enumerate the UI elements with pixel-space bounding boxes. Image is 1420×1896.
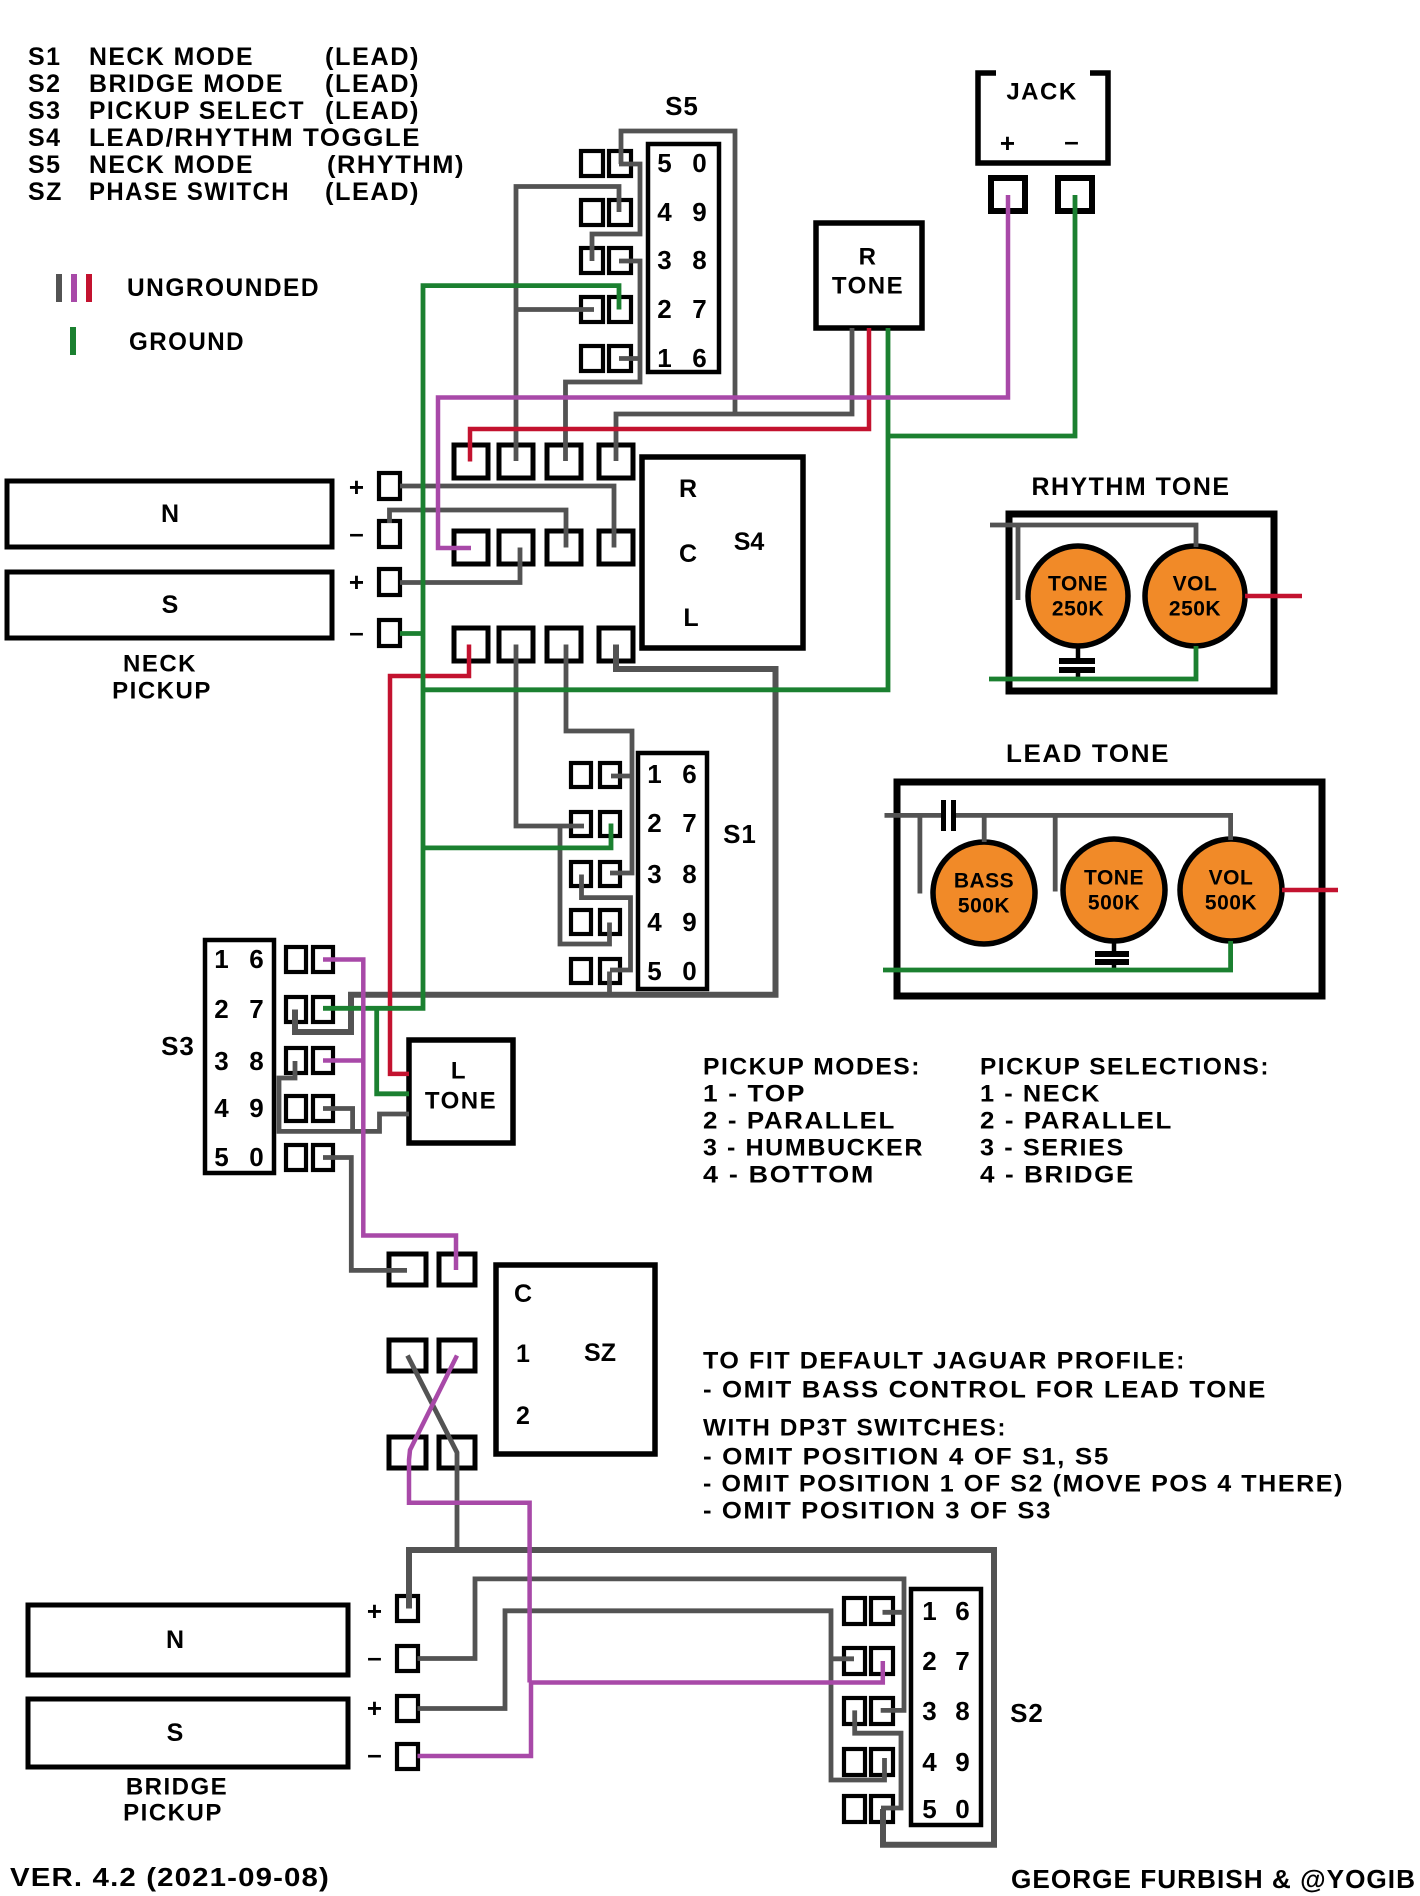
svg-text:3: 3 [647,859,662,889]
svg-text:3 - HUMBUCKER: 3 - HUMBUCKER [703,1135,924,1162]
svg-text:C: C [514,1280,532,1308]
svg-text:9: 9 [682,907,697,937]
wire gray S5 row5-right branch [619,356,640,361]
svg-text:NECK: NECK [123,651,197,678]
svg-text:SZ: SZ [28,178,63,206]
svg-text:R: R [679,475,697,503]
potentiometer TONE 250K [1028,546,1128,646]
svg-text:7: 7 [955,1646,970,1676]
svg-text:8: 8 [249,1046,264,1076]
svg-text:RHYTHM TONE: RHYTHM TONE [1032,473,1231,501]
svg-text:- OMIT POSITION 4 OF S1, S5: - OMIT POSITION 4 OF S1, S5 [703,1444,1110,1471]
legend ungrounded swatch purple bar [71,274,77,302]
svg-text:S5: S5 [28,151,62,179]
svg-text:2: 2 [516,1402,530,1430]
svg-text:3 - SERIES: 3 - SERIES [980,1135,1125,1162]
switch S3 pads row1 [286,947,333,972]
wire gray S3 row5-right to SZ top-left pad [323,1158,407,1271]
svg-text:PHASE SWITCH: PHASE SWITCH [89,178,290,206]
svg-text:1 - NECK: 1 - NECK [980,1081,1101,1108]
svg-text:–: – [349,518,364,548]
svg-text:5: 5 [214,1142,229,1172]
neck terminal N- [349,518,400,548]
svg-text:8: 8 [682,859,697,889]
wire gray S2 row3-left to S2 row5-right [855,1710,901,1808]
svg-text:S3: S3 [28,97,62,125]
svg-text:L: L [683,604,698,632]
switch S5 pads row1 [581,151,631,176]
wire red rhythm-tone output [1245,594,1302,599]
svg-text:(LEAD): (LEAD) [325,43,420,71]
wire gray lead-tone bass tap [918,815,923,893]
svg-text:2: 2 [214,994,229,1024]
svg-text:3: 3 [657,245,672,275]
wire gray S4 bottom pad4 to S3 row2-left [295,645,776,1033]
svg-text:3: 3 [922,1696,937,1726]
svg-text:GROUND: GROUND [129,328,245,356]
wire gray bridge N- to S2 row3-right [418,1579,905,1711]
switch S5 pads row2 [581,200,631,225]
bridge terminal S+ [367,1693,418,1723]
svg-text:5: 5 [657,148,672,178]
jack J1 body [978,73,1108,163]
legend row S5 [28,151,465,179]
wire gray S4 bottom pad2 to S1 row2-left [516,645,584,827]
note pickup modes [703,1054,924,1189]
wire gray branch to S2 row1-right [883,1610,905,1615]
svg-text:2: 2 [657,294,672,324]
svg-text:2: 2 [922,1646,937,1676]
wire gray lead-tone bass top [982,815,987,842]
control R TONE (rhythm tone pot) [816,223,922,328]
switch S3 pads row3 [286,1048,333,1073]
svg-text:+: + [1000,128,1016,158]
wire gray branch to S1 row4-right [560,826,610,944]
switch S1 pads row3 [571,862,620,886]
svg-text:S4: S4 [28,124,62,152]
bridge pickup coil S [28,1699,348,1767]
wire gray neck N+ to S4 middle pad4 [400,486,614,548]
svg-text:S2: S2 [1010,1698,1044,1728]
switch S1 pads row2 [571,812,620,836]
svg-text:3: 3 [214,1046,229,1076]
svg-text:S1: S1 [28,43,62,71]
legend ground swatch green bar [70,327,76,355]
svg-text:+: + [349,567,365,597]
svg-text:5: 5 [922,1794,937,1824]
svg-text:9: 9 [955,1747,970,1777]
svg-text:4: 4 [657,197,672,227]
wire green branch to L TONE [377,1008,409,1094]
svg-text:1 - TOP: 1 - TOP [703,1081,806,1108]
note pickup selections [980,1054,1270,1189]
potentiometer TONE 500K [1063,839,1165,941]
wire green lead-tone inset ground [883,941,1231,970]
svg-text:PICKUP: PICKUP [123,1800,223,1827]
jack terminal + [991,178,1025,211]
switch S2 pads row3 [844,1698,893,1724]
svg-text:1: 1 [516,1340,530,1368]
svg-text:BRIDGE MODE: BRIDGE MODE [89,70,284,98]
svg-text:2: 2 [647,808,662,838]
legend row SZ [28,178,420,206]
capacitor C-lead-tone (tone cap to ground) [1095,941,1129,972]
svg-text:C: C [679,540,697,568]
wire gray neck N- to S4 middle pad3 [390,510,567,548]
wire purple SZ crossover diagonal to bridge net [409,1356,530,1683]
svg-text:PICKUP MODES:: PICKUP MODES: [703,1054,921,1081]
svg-text:PICKUP SELECT: PICKUP SELECT [89,97,305,125]
wire gray SZ crossover diagonal [408,1356,458,1551]
switch S5 body [648,144,719,373]
wire gray S3 row3-left to L TONE [279,1061,409,1131]
bridge terminal N- [367,1642,418,1672]
wire gray branch to S1 row1-right [611,774,632,779]
svg-text:1: 1 [214,944,229,974]
svg-text:7: 7 [249,994,264,1024]
svg-text:UNGROUNDED: UNGROUNDED [127,274,320,302]
svg-text:5: 5 [647,956,662,986]
svg-text:(LEAD): (LEAD) [325,70,420,98]
wire gray S4 bottom pad3 to S1 row3-right [566,645,632,874]
neck terminal N+ [349,472,400,502]
wire gray S3 row4-right branch [323,1109,353,1132]
switch S1 pads row1 [571,763,620,787]
svg-text:4: 4 [214,1093,229,1123]
svg-text:VOL: VOL [1173,573,1218,596]
inset RHYTHM TONE box [1009,514,1274,691]
svg-text:TONE: TONE [1048,573,1108,596]
svg-text:0: 0 [682,956,697,986]
svg-text:VOL: VOL [1209,867,1254,890]
svg-text:(LEAD): (LEAD) [325,97,420,125]
control L TONE (lead tone pot) [409,1040,513,1143]
svg-text:8: 8 [692,245,707,275]
svg-text:GEORGE FURBISH & @YOGIB: GEORGE FURBISH & @YOGIB [1011,1864,1416,1894]
wire gray bridge N+ frame to S2 row5-right [409,1550,994,1845]
wire gray neck S+ to S4 middle pad2 [400,548,520,583]
potentiometer BASS 500K [933,842,1035,944]
svg-text:4: 4 [647,907,662,937]
svg-text:PICKUP: PICKUP [112,678,212,705]
svg-text:WITH DP3T SWITCHES:: WITH DP3T SWITCHES: [703,1415,1007,1442]
svg-text:BRIDGE: BRIDGE [126,1774,228,1801]
svg-text:+: + [349,472,365,502]
inset LEAD TONE box [897,782,1322,996]
svg-text:9: 9 [249,1093,264,1123]
wire green neck S- stub [400,631,423,636]
svg-text:S2: S2 [28,70,62,98]
switch S5 pads row3 [581,248,631,273]
svg-text:TONE: TONE [1084,867,1144,890]
svg-text:L: L [451,1058,467,1085]
svg-text:NECK MODE: NECK MODE [89,151,254,179]
switch S3 pads row5 [286,1145,333,1170]
svg-text:500K: 500K [1088,892,1140,915]
svg-text:- OMIT BASS CONTROL FOR LEAD T: - OMIT BASS CONTROL FOR LEAD TONE [703,1377,1267,1404]
neck pickup coil N [7,481,332,547]
legend ungrounded swatch gray bar [56,274,62,302]
svg-text:NECK MODE: NECK MODE [89,43,254,71]
svg-text:6: 6 [682,759,697,789]
svg-text:+: + [367,1596,383,1626]
wire green bus horizontal to R-TONE ground [423,328,888,690]
svg-text:0: 0 [249,1142,264,1172]
svg-text:- OMIT POSITION 1 OF S2 (MOVE: - OMIT POSITION 1 OF S2 (MOVE POS 4 THER… [703,1471,1344,1498]
svg-text:–: – [367,1739,382,1769]
svg-text:4 - BRIDGE: 4 - BRIDGE [980,1162,1135,1189]
svg-text:N: N [161,500,179,528]
bridge terminal S- [367,1739,418,1769]
svg-text:9: 9 [692,197,707,227]
wire gray branch to S2 row2-left [831,1656,854,1661]
wire gray lead-tone tone tap [1053,815,1058,891]
wire gray S5 row2-right to S4 top pad2 [516,187,619,462]
svg-text:LEAD/RHYTHM TOGGLE: LEAD/RHYTHM TOGGLE [89,124,421,152]
svg-text:1: 1 [647,759,662,789]
switch SZ pads row C [389,1254,475,1285]
svg-text:7: 7 [682,808,697,838]
svg-text:S: S [162,591,179,619]
switch SZ pads row 2 [389,1437,475,1468]
svg-text:TONE: TONE [425,1088,497,1115]
wire red S4 bottom pad1 to L TONE [390,645,469,1074]
legend row S1 [28,43,420,71]
svg-text:7: 7 [692,294,707,324]
svg-text:500K: 500K [958,895,1010,918]
switch S5 pads row5 [581,346,631,371]
bridge pickup coil N [28,1605,348,1675]
wire red R-TONE to S4 top pad1 [470,328,869,462]
svg-text:S3: S3 [161,1031,195,1061]
svg-text:JACK: JACK [1006,79,1077,106]
svg-text:LEAD TONE: LEAD TONE [1006,740,1170,768]
switch S4 pad row R (top) [454,445,633,478]
svg-text:–: – [1064,126,1079,156]
svg-text:S1: S1 [723,819,757,849]
svg-text:0: 0 [955,1794,970,1824]
wire gray bridge S+ to S2 row4-right [418,1611,885,1780]
switch S2 pads row1 [844,1598,893,1624]
svg-text:4: 4 [922,1747,937,1777]
neck terminal S+ [349,567,400,597]
svg-text:6: 6 [249,944,264,974]
potentiometer VOL 500K [1180,839,1282,941]
wire gray rhythm-tone inset tone tap [1016,525,1021,600]
wire green rhythm-tone inset ground [989,646,1196,679]
switch S4 pad row L (bottom) [454,628,633,661]
wire gray branch to S5 row4-left [516,307,594,312]
svg-text:1: 1 [922,1596,937,1626]
note dp3t switches [703,1415,1344,1525]
switch S4 pad row C (middle) [454,531,633,564]
svg-text:500K: 500K [1205,892,1257,915]
legend row S2 [28,70,420,98]
svg-text:250K: 250K [1052,598,1104,621]
capacitor C-rhythm (tone cap to ground) [1059,646,1095,681]
svg-text:+: + [367,1693,383,1723]
wire gray S5 row1-right to S5 row3-left [592,164,640,261]
svg-text:250K: 250K [1169,598,1221,621]
svg-text:6: 6 [692,343,707,373]
legend row S3 [28,97,420,125]
svg-text:S5: S5 [665,91,699,121]
wire gray lead-tone inset input to cap [885,813,942,818]
jack terminal - [1058,178,1092,211]
svg-text:2 - PARALLEL: 2 - PARALLEL [980,1108,1173,1135]
switch S3 body [205,940,274,1173]
svg-text:0: 0 [692,148,707,178]
wire green branch to S1 row2-right [423,824,611,848]
note jaguar profile [703,1348,1267,1404]
wire green ground bus S5 row4-right to S3 row2-right [323,286,619,1009]
switch SZ pads row 1 [389,1340,475,1371]
neck terminal S- [349,617,400,647]
svg-text:BASS: BASS [954,870,1014,893]
wire gray S1 row3-left to S1 row5-right [582,875,631,971]
bridge terminal N+ [367,1596,418,1626]
switch S1 pads row5 [571,959,620,983]
wire purple S3 row3-right branch [323,1058,363,1063]
svg-text:–: – [349,617,364,647]
svg-text:S4: S4 [734,528,765,556]
svg-text:N: N [166,1626,184,1654]
svg-text:8: 8 [955,1696,970,1726]
switch S3 pads row4 [286,1096,333,1121]
svg-text:2 - PARALLEL: 2 - PARALLEL [703,1108,896,1135]
capacitor C-lead-series (bass cap in series) [941,800,956,831]
wire gray branch to S5 row1 right pad [621,131,735,414]
neck pickup coil S [7,572,332,638]
switch S5 pads row4 [581,297,631,322]
svg-text:- OMIT POSITION 3 OF S3: - OMIT POSITION 3 OF S3 [703,1498,1052,1525]
switch S2 pads row5 [844,1796,893,1822]
wire green jack sleeve to ground [888,195,1075,436]
switch SZ body [496,1265,655,1454]
switch S2 pads row2 [844,1648,893,1674]
svg-text:TONE: TONE [832,273,904,300]
svg-text:6: 6 [955,1596,970,1626]
wire red lead-tone output [1282,888,1338,893]
switch S3 pads row2 [286,997,333,1022]
wire purple bridge S- to S2 row2-right [418,1661,883,1756]
switch S2 body [911,1589,981,1825]
svg-text:4 - BOTTOM: 4 - BOTTOM [703,1162,875,1189]
potentiometer VOL 250K [1145,546,1245,646]
svg-text:TO FIT DEFAULT JAGUAR PROFILE:: TO FIT DEFAULT JAGUAR PROFILE: [703,1348,1186,1375]
svg-text:VER. 4.2 (2021-09-08): VER. 4.2 (2021-09-08) [10,1862,330,1892]
wire gray lead-tone inset cap to vol [956,815,1231,840]
svg-text:(RHYTHM): (RHYTHM) [327,151,465,179]
svg-text:1: 1 [657,343,672,373]
svg-text:SZ: SZ [584,1339,616,1367]
svg-text:–: – [367,1642,382,1672]
svg-text:(LEAD): (LEAD) [325,178,420,206]
wire gray S5 row3-right to S4 top pad3 [566,261,641,461]
legend row S4 [28,124,421,152]
svg-text:R: R [859,244,878,271]
wire purple jack tip to S4 middle pad1 [438,195,1008,548]
switch S4 body [642,457,803,648]
wire gray rhythm-tone inset input [990,525,1196,547]
wire gray branch to S1 row5-right [607,972,612,995]
svg-text:PICKUP SELECTIONS:: PICKUP SELECTIONS: [980,1054,1270,1081]
legend ungrounded swatch red bar [86,274,92,302]
switch S1 pads row4 [571,910,620,934]
svg-text:S: S [167,1719,184,1747]
switch S2 pads row4 [844,1749,893,1775]
switch S1 body [638,753,707,989]
wire purple S3 row1-right to SZ top-right pad [323,960,456,1271]
wire gray R-TONE wiper to S4 top pad4 [616,328,852,461]
